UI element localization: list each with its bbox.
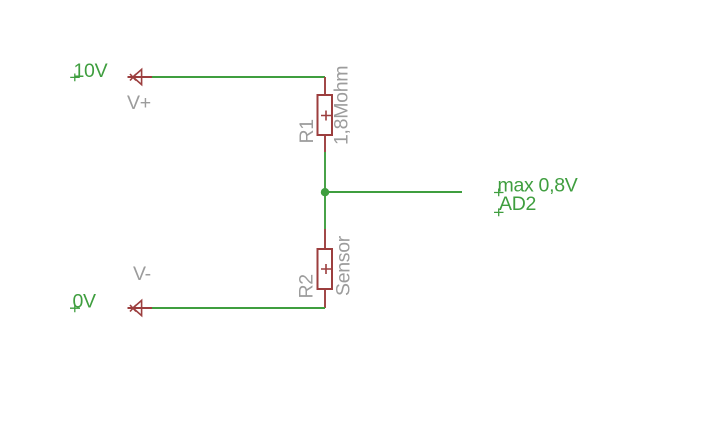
wire middle vertical bbox=[324, 152, 326, 229]
wire middle horizontal bbox=[325, 191, 462, 193]
svg-text:R1: R1 bbox=[296, 119, 318, 143]
svg-text:R2: R2 bbox=[296, 274, 318, 298]
supply symbol V- bbox=[128, 300, 153, 315]
value 1,8Mohm bbox=[331, 66, 353, 145]
wire top horizontal bbox=[152, 76, 325, 78]
wire bottom horizontal bbox=[152, 307, 325, 309]
resistor R1 bbox=[318, 77, 333, 152]
label R2 bbox=[296, 274, 318, 298]
svg-text:V-: V- bbox=[133, 263, 151, 285]
label V+ bbox=[127, 92, 151, 114]
net label AD2 bbox=[494, 193, 536, 216]
junction node bbox=[321, 188, 329, 196]
net label max 0,8V bbox=[494, 175, 578, 197]
svg-text:V+: V+ bbox=[127, 92, 151, 114]
net label 10V bbox=[70, 60, 107, 82]
svg-text:AD2: AD2 bbox=[499, 193, 536, 215]
svg-text:0V: 0V bbox=[73, 291, 97, 313]
supply symbol V+ bbox=[128, 69, 153, 84]
net label 0V bbox=[70, 291, 96, 313]
label R1 bbox=[296, 119, 318, 143]
resistor R2 bbox=[318, 229, 333, 308]
label V- bbox=[133, 263, 151, 285]
value Sensor bbox=[333, 235, 355, 296]
svg-text:Sensor: Sensor bbox=[333, 235, 355, 296]
svg-text:10V: 10V bbox=[74, 60, 108, 82]
svg-text:1,8Mohm: 1,8Mohm bbox=[331, 66, 353, 145]
